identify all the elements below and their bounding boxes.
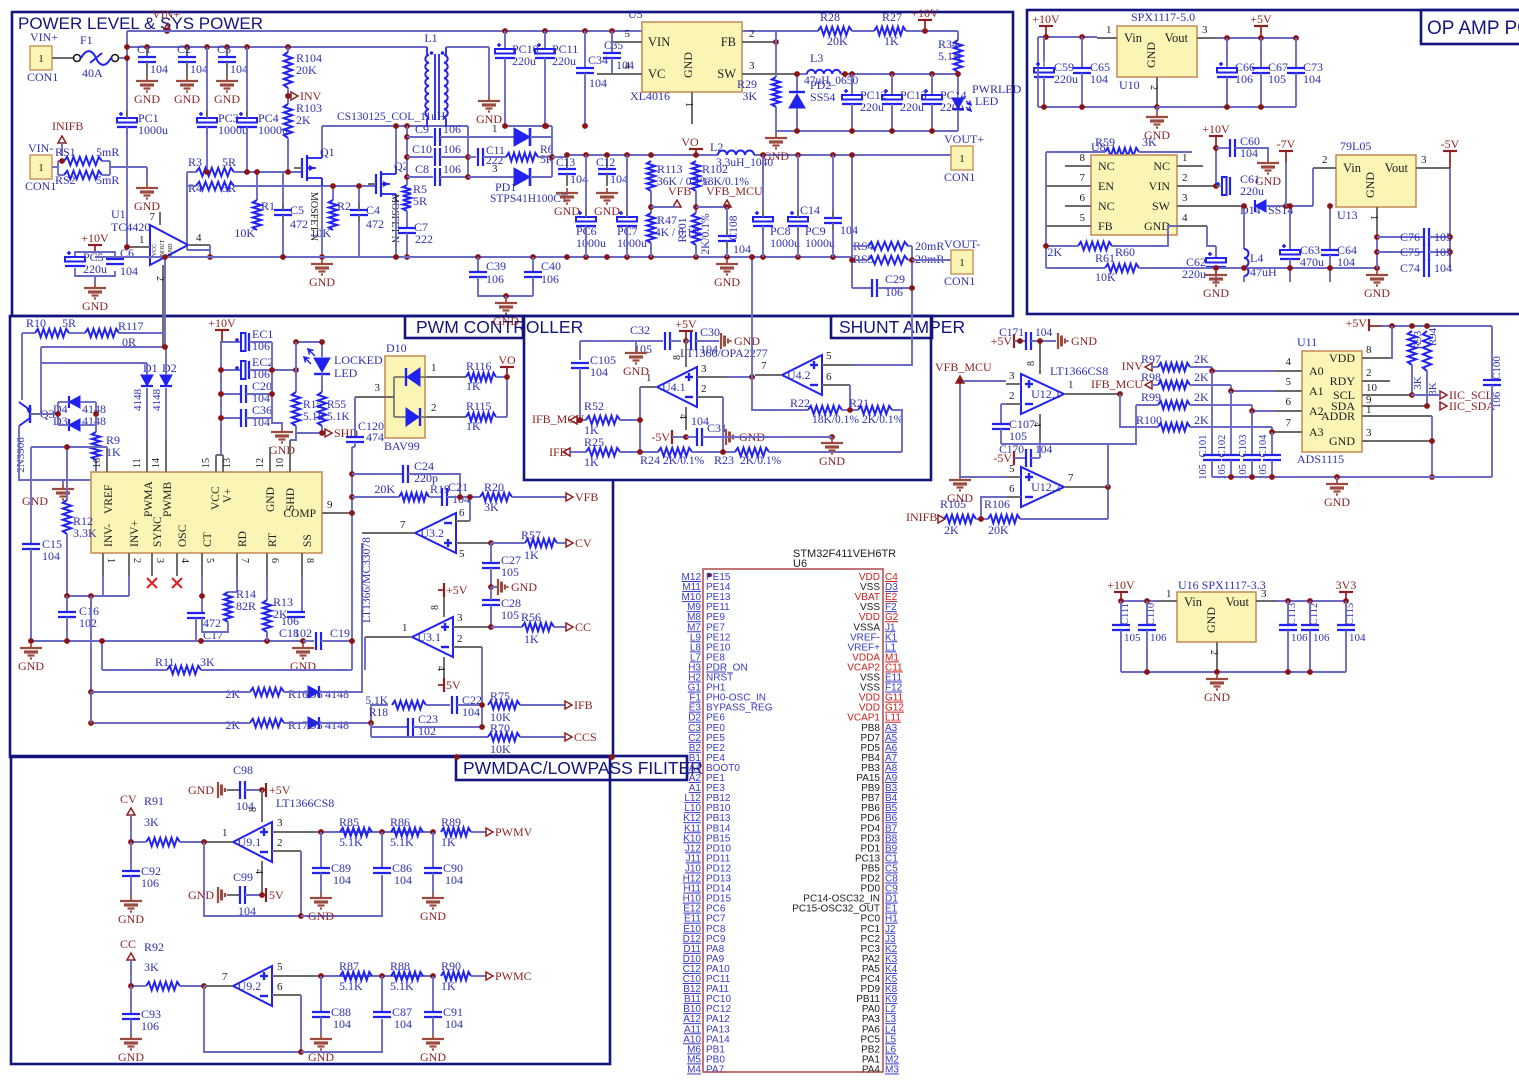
pin 1 of U3.1: [365, 636, 412, 638]
svg-text:C98: C98: [233, 763, 253, 777]
sideways ground at C171: [1057, 333, 1059, 349]
svg-text:4148: 4148: [132, 389, 144, 412]
svg-text:GND: GND: [763, 149, 789, 163]
svg-text:104: 104: [589, 76, 607, 90]
svg-text:104: 104: [462, 705, 480, 719]
svg-text:U1: U1: [111, 207, 126, 221]
svg-text:1: 1: [105, 558, 116, 563]
svg-text:R86: R86: [390, 815, 410, 829]
svg-text:2K: 2K: [225, 718, 240, 732]
ground under U16: [1216, 674, 1218, 679]
net port PWMV: [486, 828, 493, 836]
svg-text:6: 6: [1286, 396, 1292, 408]
svg-text:PWMA: PWMA: [143, 481, 155, 517]
wire -7V bottom rail: [1138, 267, 1140, 269]
svg-text:106: 106: [885, 285, 903, 299]
capacitor C19 102: [303, 640, 314, 642]
pin 14 PWMB: [165, 440, 167, 472]
svg-text:105: 105: [1434, 230, 1452, 244]
resistor R13 2K: [266, 576, 268, 600]
pin 1 INV-: [102, 553, 104, 576]
ground under R22 R21 row: [829, 434, 835, 440]
svg-text:12: 12: [255, 458, 266, 468]
svg-text:R27: R27: [882, 10, 902, 24]
svg-text:-5V: -5V: [1441, 137, 1460, 151]
svg-text:106: 106: [141, 876, 159, 890]
no-connect X at pin 4: [172, 578, 182, 588]
svg-text:GND: GND: [188, 888, 214, 902]
pin 5 CT: [201, 553, 203, 576]
ground below C2: [186, 76, 188, 81]
svg-text:M3: M3: [885, 1064, 899, 1075]
pin 4 OSC: [176, 553, 178, 576]
svg-text:R105: R105: [940, 497, 966, 511]
svg-text:R92: R92: [144, 940, 164, 954]
pin 4 A0 of U11: [1275, 370, 1302, 372]
svg-text:Vin: Vin: [1124, 31, 1143, 45]
svg-text:16: 16: [92, 458, 103, 468]
wire +10V cap column: [220, 341, 222, 455]
svg-text:106: 106: [1150, 632, 1167, 644]
svg-text:D5: D5: [308, 718, 323, 732]
pin 4 of U3.1 -5V: [443, 657, 445, 683]
svg-text:2: 2: [749, 28, 755, 40]
svg-text:EN: EN: [1098, 179, 1114, 193]
polarized capacitor PC12 220u: [851, 74, 853, 95]
wire +5V caps bottom rail: [1157, 106, 1296, 108]
svg-text:STM32F411VEH6TR: STM32F411VEH6TR: [793, 548, 896, 560]
svg-text:R56: R56: [521, 610, 541, 624]
wire C32 left to C105 column: [580, 340, 636, 342]
svg-text:U10: U10: [1119, 78, 1140, 92]
svg-text:3: 3: [1261, 588, 1267, 600]
svg-text:IFB_MCU: IFB_MCU: [1091, 377, 1143, 391]
svg-text:U5: U5: [628, 7, 643, 21]
wire diode pair: [80, 401, 96, 403]
svg-text:5R: 5R: [62, 316, 76, 330]
svg-text:R101: R101: [677, 217, 689, 242]
pin 7 of U1: [159, 212, 161, 225]
svg-text:7: 7: [222, 971, 228, 983]
pin 3 SW of U5: [742, 73, 800, 75]
svg-text:5: 5: [826, 350, 832, 362]
svg-text:VFB: VFB: [668, 184, 691, 198]
svg-text:VCC: VCC: [152, 244, 158, 256]
svg-text:4: 4: [1286, 356, 1292, 368]
wire diode tops: [41, 362, 147, 364]
svg-text:R87: R87: [339, 959, 359, 973]
svg-text:2: 2: [131, 558, 142, 563]
polarized capacitor C66 106: [1226, 38, 1228, 68]
svg-text:GND: GND: [22, 494, 48, 508]
svg-text:1000u: 1000u: [138, 123, 168, 137]
svg-text:RT: RT: [267, 533, 279, 547]
svg-text:U12.2: U12.2: [1031, 480, 1061, 494]
title box SHUNT AMPER: [831, 316, 932, 338]
pin 1 of U9.1: [204, 841, 233, 843]
resistor R5 5R: [403, 185, 411, 211]
svg-text:79L05: 79L05: [1340, 139, 1371, 153]
pin 6 of U12.2: [1006, 496, 1021, 498]
polarized capacitor PC7 1000u: [626, 155, 628, 217]
svg-text:GND: GND: [1203, 286, 1229, 300]
wire gate drive: [187, 171, 196, 173]
svg-text:3: 3: [701, 363, 707, 375]
svg-text:4: 4: [435, 666, 446, 671]
svg-text:C1: C1: [137, 42, 151, 56]
svg-text:220u: 220u: [1240, 184, 1264, 198]
svg-text:2K: 2K: [225, 687, 240, 701]
polarized capacitor PC6 1000u: [585, 155, 587, 217]
svg-text:VFB: VFB: [575, 490, 598, 504]
svg-text:6: 6: [459, 507, 465, 519]
svg-text:+5V: +5V: [1346, 316, 1368, 330]
pin 9 SDA of U11: [1362, 405, 1427, 407]
diode D5 4148: [308, 717, 319, 729]
polarized capacitor PC8 1000u: [762, 155, 764, 217]
svg-text:CON1: CON1: [25, 179, 56, 193]
transistor Q3 2N3906: [29, 405, 31, 423]
pin 8 of U9.1: [261, 790, 263, 822]
diode D10b: [394, 416, 406, 418]
power flag +5V at C98: [265, 783, 267, 797]
svg-text:D2: D2: [162, 361, 177, 375]
svg-text:RS3: RS3: [853, 252, 874, 266]
svg-text:PWMC: PWMC: [495, 969, 532, 983]
diode D10a: [394, 376, 407, 378]
svg-text:1: 1: [492, 123, 498, 135]
svg-text:1000u: 1000u: [805, 236, 835, 250]
pin 4 of U12.1: [1039, 414, 1041, 440]
pin 5 A1 of U11: [1275, 390, 1302, 392]
svg-text:106: 106: [141, 1019, 159, 1033]
svg-text:104: 104: [1090, 72, 1108, 86]
svg-text:U3.1: U3.1: [417, 630, 441, 644]
wire cap ground column: [271, 342, 273, 418]
svg-text:RDY: RDY: [1330, 374, 1356, 388]
svg-text:3: 3: [1366, 427, 1372, 439]
ground under C88: [320, 1034, 322, 1039]
wire shunt sense line down to amplifier: [911, 288, 913, 366]
capacitor EC1 106: [221, 341, 240, 343]
wire ADDR to gnd bus: [1431, 416, 1433, 477]
wire diode bottoms to pins: [146, 388, 148, 440]
pin 3 of U9.1: [272, 831, 321, 833]
svg-text:2: 2: [431, 402, 437, 414]
svg-text:C31: C31: [707, 421, 727, 435]
svg-text:GND: GND: [1144, 42, 1158, 68]
svg-text:R24: R24: [640, 453, 660, 467]
svg-text:1K: 1K: [466, 379, 481, 393]
svg-text:SS: SS: [302, 534, 314, 547]
svg-text:4: 4: [625, 60, 631, 72]
opamp U12.2: [1021, 467, 1064, 507]
svg-text:104: 104: [1035, 444, 1053, 456]
svg-text:-7V: -7V: [1277, 137, 1296, 151]
svg-text:C4: C4: [366, 203, 380, 217]
svg-text:2: 2: [1009, 390, 1015, 402]
fuse F1 40A: [74, 55, 81, 62]
svg-text:+10V: +10V: [1107, 578, 1135, 592]
svg-text:+10V: +10V: [1032, 12, 1060, 26]
capacitor C73 104: [1295, 38, 1297, 68]
svg-text:3K: 3K: [484, 500, 499, 514]
capacitor C76 105: [1377, 236, 1424, 238]
svg-text:20K: 20K: [988, 523, 1009, 537]
svg-text:104: 104: [190, 62, 208, 76]
svg-text:1: 1: [1166, 588, 1172, 600]
svg-text:GND: GND: [18, 659, 44, 673]
diode D14 SS14: [1240, 205, 1244, 207]
wire R116 R115 to VO: [496, 376, 507, 378]
svg-text:C3: C3: [217, 42, 231, 56]
connector CON1 VIN+: [30, 46, 52, 70]
svg-text:5V: 5V: [269, 888, 284, 902]
wire VO rail: [552, 156, 567, 158]
svg-text:R106: R106: [984, 497, 1010, 511]
resistor R1 10K: [256, 172, 258, 200]
svg-text:C8: C8: [415, 162, 429, 176]
svg-text:PWMDAC/LOWPASS FILITER: PWMDAC/LOWPASS FILITER: [463, 758, 703, 778]
capacitor C28 105: [482, 599, 500, 601]
svg-text:C171: C171: [999, 327, 1024, 339]
svg-text:U9.1: U9.1: [238, 835, 262, 849]
svg-text:6: 6: [1080, 192, 1086, 204]
pin 2 of U9.1: [272, 850, 301, 852]
wire top bus VIN+ +10V rail: [127, 30, 818, 32]
svg-text:SYNC: SYNC: [152, 516, 164, 547]
svg-text:470u: 470u: [1300, 255, 1324, 269]
polarized capacitor C63 470u: [1286, 205, 1290, 207]
capacitor C104 105: [1271, 432, 1273, 455]
capacitor C74 104: [1377, 267, 1424, 269]
svg-text:2: 2: [1148, 85, 1159, 90]
svg-text:3: 3: [1202, 24, 1208, 36]
svg-text:C34: C34: [588, 53, 608, 67]
svg-text:F1: F1: [80, 33, 93, 47]
svg-text:1: 1: [1182, 152, 1188, 164]
svg-text:8: 8: [430, 605, 441, 610]
wire SHD to pin 10: [290, 433, 296, 440]
svg-text:2: 2: [1322, 154, 1328, 166]
capacitor PC11 220u: [544, 31, 546, 49]
pin 1 Vin of U16: [1157, 600, 1177, 602]
svg-text:222: 222: [415, 232, 433, 246]
svg-text:OUT: OUT: [160, 240, 166, 253]
svg-text:CON1: CON1: [944, 170, 975, 184]
title box PWMDAC/LOWPASS FILITER: [456, 756, 687, 780]
svg-text:106: 106: [1235, 72, 1253, 86]
net port CC: [566, 623, 573, 631]
power flag +5V U12: [1013, 334, 1015, 348]
pin 12 GND: [269, 447, 271, 472]
wire U12.1 feedback to C107: [1001, 444, 1108, 487]
svg-text:2K/0.1%: 2K/0.1%: [862, 414, 904, 426]
capacitor C40 106: [532, 257, 534, 272]
svg-text:4: 4: [1182, 212, 1188, 224]
net flag SHD: [296, 426, 322, 433]
resistor R101 2K/0.1%: [692, 213, 700, 245]
svg-text:C170: C170: [999, 444, 1024, 456]
svg-text:R99: R99: [1141, 390, 1161, 404]
pin 11 PWMA: [146, 440, 148, 472]
svg-text:1000u: 1000u: [576, 236, 606, 250]
wire A1 row: [1231, 385, 1275, 391]
wire transformer secondary top to ground: [446, 46, 489, 48]
ground left PWM: [30, 643, 32, 648]
opamp U9.2: [233, 966, 272, 1006]
svg-text:LT1366CS8: LT1366CS8: [1050, 364, 1108, 378]
frame PWMDAC/LOWPASS FILITER section: [11, 756, 610, 1064]
svg-text:3K: 3K: [1427, 382, 1439, 396]
capacitor C101 105: [1211, 371, 1213, 455]
wire U9.1 feedback loop: [204, 842, 301, 916]
capacitor C92 106: [130, 842, 132, 871]
svg-text:1: 1: [646, 372, 652, 384]
wire transformer bottom ends: [404, 123, 410, 129]
svg-text:C108: C108: [728, 215, 740, 240]
svg-text:2: 2: [277, 837, 283, 849]
svg-text:2K: 2K: [1194, 413, 1209, 427]
capacitor PC10 220u: [504, 31, 506, 49]
svg-text:GND: GND: [1324, 495, 1350, 509]
wire U16 input rail: [1121, 600, 1157, 602]
pin 3 SW of U8: [1177, 205, 1240, 207]
frame OP AMP POWER section: [1027, 10, 1519, 314]
wire U12.2 feedback: [1020, 518, 1108, 520]
pin 1 of U13: [1376, 207, 1378, 237]
net port IIC_SCL: [1440, 391, 1447, 399]
svg-text:1K: 1K: [524, 548, 539, 562]
wire Q2 drain to transformer: [395, 126, 397, 166]
svg-text:INIFB: INIFB: [906, 510, 937, 524]
resistor R103 2K: [284, 104, 292, 138]
wire sense resistor parallel: [851, 155, 853, 288]
pin 1 of U4.1: [640, 386, 657, 388]
svg-text:1000u: 1000u: [617, 236, 647, 250]
svg-text:3K: 3K: [742, 89, 757, 103]
resistor R29 3K: [775, 42, 777, 77]
svg-text:2K/0.1%: 2K/0.1%: [700, 213, 712, 255]
ground under C32 node: [635, 341, 637, 348]
svg-text:4148: 4148: [151, 389, 163, 412]
svg-text:GND: GND: [714, 275, 740, 289]
svg-text:C75: C75: [1400, 245, 1420, 259]
svg-text:102: 102: [79, 616, 97, 630]
svg-text:VCC: VCC: [210, 486, 222, 510]
svg-text:3: 3: [375, 382, 381, 394]
mosfet Q2: [375, 174, 377, 194]
opamp U4.2: [782, 355, 822, 395]
ground of cap bank: [281, 427, 283, 432]
net port CV: [566, 539, 573, 547]
pin 1 NC of U8: [1177, 165, 1203, 167]
wire U8 GND pin down: [1207, 226, 1216, 246]
svg-text:C104: C104: [1258, 434, 1269, 458]
capacitor C93 106: [130, 986, 132, 1014]
svg-text:8: 8: [1366, 344, 1372, 356]
pin 7 of U12.2: [1064, 486, 1108, 488]
wire U16 ground rail: [1121, 671, 1346, 673]
svg-text:7: 7: [1068, 472, 1074, 484]
capacitor C39 106: [477, 257, 479, 272]
svg-text:C9: C9: [415, 122, 429, 136]
svg-text:104: 104: [840, 223, 858, 237]
svg-text:LT1366CS8: LT1366CS8: [276, 796, 334, 810]
svg-text:Vin: Vin: [1184, 595, 1203, 609]
capacitor EC2 106: [221, 369, 240, 371]
pin 3 of U12.1: [1006, 383, 1021, 385]
svg-text:Vout: Vout: [1226, 595, 1250, 609]
pin 3 SYNC: [151, 553, 153, 576]
svg-text:2K: 2K: [1194, 352, 1209, 366]
pin 3 Vout of U10: [1197, 37, 1217, 39]
wire bottom ground bus PWM: [31, 640, 303, 642]
capacitor C11 222: [468, 156, 476, 158]
svg-text:GND: GND: [214, 92, 240, 106]
pin 9 COMP: [322, 512, 352, 514]
capacitor C2 104: [186, 47, 188, 57]
capacitor C20 104: [221, 393, 241, 395]
svg-text:A3: A3: [1309, 425, 1324, 439]
svg-text:FB: FB: [721, 35, 736, 49]
svg-text:C14: C14: [800, 203, 820, 217]
svg-text:VFB_MCU: VFB_MCU: [706, 184, 763, 198]
svg-text:Vout: Vout: [1165, 31, 1189, 45]
wire fuse to VIN+ rail: [119, 57, 127, 59]
svg-text:GND: GND: [1204, 690, 1230, 704]
svg-text:R60: R60: [1115, 245, 1135, 259]
svg-text:CC: CC: [575, 620, 591, 634]
ground under PC5: [75, 268, 115, 276]
svg-text:GND: GND: [420, 1050, 446, 1064]
capacitor C3 104: [226, 47, 228, 57]
svg-text:R17: R17: [288, 718, 308, 732]
pin 2 VIN of U8: [1177, 185, 1216, 187]
svg-text:5: 5: [1080, 212, 1086, 224]
wire second bus: [127, 46, 427, 48]
svg-text:20K: 20K: [296, 63, 317, 77]
svg-text:104: 104: [120, 264, 138, 278]
svg-text:472: 472: [366, 217, 384, 231]
svg-text:U9.2: U9.2: [238, 979, 262, 993]
svg-text:4148: 4148: [325, 687, 349, 701]
svg-text:U8: U8: [1091, 140, 1106, 154]
svg-text:R23: R23: [714, 453, 734, 467]
pin 8 NC of U8: [1065, 165, 1091, 167]
polarized capacitor PC1 1000u: [117, 118, 137, 123]
svg-text:C74: C74: [1400, 261, 1420, 275]
svg-text:C103: C103: [1238, 435, 1249, 458]
IC U2 PWM controller: [91, 472, 322, 553]
no-connect X at pin 3: [147, 578, 157, 588]
capacitor C14 104: [832, 155, 834, 218]
svg-text:C17: C17: [203, 628, 223, 642]
ground under C89: [320, 893, 322, 898]
svg-text:5: 5: [625, 28, 631, 40]
svg-text:10: 10: [275, 458, 286, 468]
pin 5 of U12.2: [1006, 476, 1021, 478]
pin 3 GND of U11: [1362, 440, 1432, 442]
pin 7 EN of U8: [1046, 185, 1091, 187]
svg-text:2K: 2K: [1194, 390, 1209, 404]
svg-text:VIN+: VIN+: [30, 30, 58, 44]
capacitor C103 105: [1251, 411, 1253, 455]
svg-text:220u: 220u: [860, 100, 884, 114]
svg-text:+5V: +5V: [446, 583, 468, 597]
svg-text:1: 1: [222, 827, 228, 839]
svg-text:105: 105: [501, 608, 519, 622]
